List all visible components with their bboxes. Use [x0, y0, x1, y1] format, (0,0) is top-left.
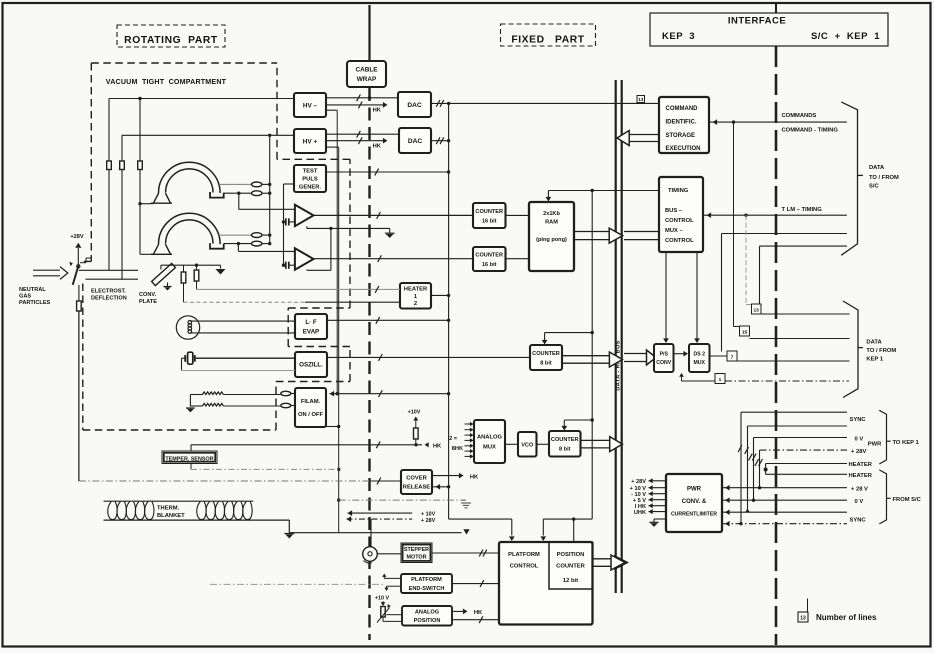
- svg-text:ANALOG: ANALOG: [415, 609, 439, 615]
- svg-text:POSITION: POSITION: [414, 618, 441, 624]
- svg-text:16 bit: 16 bit: [482, 218, 497, 224]
- svg-text:HK: HK: [373, 144, 382, 150]
- svg-text:DS 2: DS 2: [693, 352, 705, 358]
- svg-text:TO / FROM: TO / FROM: [866, 348, 896, 354]
- svg-text:P/S: P/S: [660, 352, 669, 358]
- svg-text:0 V: 0 V: [855, 499, 864, 505]
- svg-text:IDENTIFIC.: IDENTIFIC.: [666, 119, 697, 125]
- svg-text:ON / OFF: ON / OFF: [298, 412, 324, 418]
- svg-text:THERM.: THERM.: [157, 506, 180, 512]
- svg-text:COMMANDS: COMMANDS: [782, 113, 817, 119]
- svg-text:STEPPER: STEPPER: [404, 547, 429, 553]
- svg-text:1: 1: [719, 377, 722, 383]
- svg-text:16 bit: 16 bit: [482, 262, 497, 268]
- svg-text:COUNTER: COUNTER: [475, 252, 503, 258]
- svg-text:OSZILL.: OSZILL.: [299, 362, 323, 369]
- svg-text:COMMAND: COMMAND: [666, 106, 699, 112]
- svg-text:DATA - HK - BUS: DATA - HK - BUS: [616, 340, 622, 390]
- svg-text:TO / FROM: TO / FROM: [869, 175, 899, 181]
- svg-text:S/C + KEP 1: S/C + KEP 1: [811, 31, 880, 42]
- svg-text:MOTOR: MOTOR: [407, 554, 427, 560]
- svg-text:POSITION: POSITION: [557, 552, 585, 558]
- svg-text:DATA: DATA: [866, 340, 882, 346]
- svg-text:8 bit: 8 bit: [559, 447, 571, 453]
- svg-text:Number of lines: Number of lines: [816, 613, 877, 622]
- svg-text:13: 13: [638, 97, 644, 102]
- svg-text:COUNTER: COUNTER: [556, 564, 585, 570]
- svg-text:HK: HK: [433, 443, 442, 449]
- svg-text:HK: HK: [373, 108, 382, 114]
- svg-text:INTERFACE: INTERFACE: [728, 16, 786, 27]
- svg-text:WRAP: WRAP: [357, 76, 377, 83]
- svg-text:0 V: 0 V: [855, 436, 864, 442]
- svg-text:KEP 1: KEP 1: [866, 357, 883, 363]
- svg-text:SYNC: SYNC: [850, 517, 867, 523]
- svg-text:+28V: +28V: [70, 234, 83, 240]
- svg-text:ROTATING PART: ROTATING PART: [124, 35, 218, 46]
- svg-text:UHK: UHK: [634, 510, 646, 516]
- svg-text:DEFLECTION: DEFLECTION: [91, 296, 127, 302]
- svg-text:TEST: TEST: [303, 169, 318, 175]
- svg-text:13: 13: [754, 308, 760, 314]
- svg-text:GAS: GAS: [19, 294, 31, 300]
- svg-text:12 bit: 12 bit: [563, 578, 578, 584]
- svg-text:EXECUTION: EXECUTION: [666, 146, 701, 152]
- svg-text:CURRENTLIMITER: CURRENTLIMITER: [671, 512, 717, 518]
- svg-text:PWR: PWR: [687, 487, 702, 493]
- svg-text:CONTROL: CONTROL: [510, 564, 539, 570]
- svg-text:CONV. &: CONV. &: [682, 499, 707, 505]
- svg-text:ELECTROST.: ELECTROST.: [91, 289, 126, 295]
- svg-text:MUX: MUX: [483, 445, 496, 451]
- svg-text:HEATER: HEATER: [849, 473, 873, 479]
- svg-text:COVER: COVER: [406, 476, 427, 482]
- svg-text:PLATE: PLATE: [139, 299, 157, 305]
- svg-text:CABLE: CABLE: [355, 67, 378, 74]
- svg-text:8 bit: 8 bit: [540, 360, 552, 366]
- svg-text:CONV: CONV: [656, 360, 672, 366]
- svg-text:+ 28 V: + 28 V: [851, 486, 868, 492]
- svg-text:CONTROL: CONTROL: [665, 238, 694, 244]
- svg-text:PLATFORM: PLATFORM: [508, 552, 540, 558]
- svg-text:COUNTER: COUNTER: [475, 209, 503, 215]
- svg-text:KEP 3: KEP 3: [662, 31, 695, 42]
- svg-text:VACUUM TIGHT COMPARTMENT: VACUUM TIGHT COMPARTMENT: [106, 78, 227, 86]
- svg-text:8HK: 8HK: [452, 446, 463, 452]
- svg-text:PLATFORM: PLATFORM: [411, 577, 442, 583]
- svg-text:CONV.: CONV.: [139, 292, 157, 298]
- svg-text:PARTICLES: PARTICLES: [19, 300, 51, 306]
- svg-text:PWR: PWR: [868, 442, 882, 448]
- svg-text:13: 13: [800, 616, 806, 622]
- svg-text:HEATER: HEATER: [404, 287, 428, 293]
- svg-text:HV +: HV +: [303, 138, 318, 145]
- svg-text:+ 28V: + 28V: [851, 449, 866, 455]
- svg-text:BUS –: BUS –: [665, 208, 683, 214]
- svg-text:FIXED PART: FIXED PART: [511, 35, 584, 46]
- svg-text:ANALOG: ANALOG: [477, 435, 503, 441]
- svg-text:CONTROL: CONTROL: [665, 218, 694, 224]
- svg-text:+ 10V: + 10V: [421, 512, 436, 518]
- svg-text:2 =: 2 =: [449, 436, 458, 442]
- svg-text:NEUTRAL: NEUTRAL: [19, 287, 46, 293]
- svg-text:2: 2: [414, 301, 417, 307]
- svg-text:L· F: L· F: [305, 319, 317, 326]
- svg-text:RAM: RAM: [545, 220, 558, 226]
- svg-text:7: 7: [731, 355, 734, 361]
- svg-text:+10V: +10V: [408, 410, 421, 416]
- svg-text:S/C: S/C: [869, 184, 879, 190]
- svg-text:+10 V: +10 V: [375, 595, 390, 601]
- svg-text:COMMAND - TIMING: COMMAND - TIMING: [782, 128, 839, 134]
- svg-text:VCO: VCO: [521, 442, 534, 448]
- svg-text:SYNC: SYNC: [850, 417, 867, 423]
- svg-text:HV –: HV –: [303, 102, 318, 109]
- svg-text:MUX –: MUX –: [665, 228, 683, 234]
- svg-text:HEATER: HEATER: [849, 462, 873, 468]
- svg-text:DAC: DAC: [407, 102, 422, 109]
- svg-text:STORAGE: STORAGE: [666, 133, 696, 139]
- svg-text:PULS: PULS: [302, 177, 318, 183]
- svg-text:HK: HK: [470, 474, 479, 480]
- svg-text:DATA: DATA: [869, 165, 885, 171]
- svg-text:15: 15: [742, 330, 748, 336]
- svg-text:DAC: DAC: [408, 138, 423, 145]
- svg-text:HK: HK: [474, 610, 483, 616]
- svg-text:T LM – TIMING: T LM – TIMING: [782, 207, 823, 213]
- svg-text:COUNTER: COUNTER: [551, 437, 579, 443]
- svg-text:COUNTER: COUNTER: [532, 351, 560, 357]
- svg-text:MUX: MUX: [693, 360, 705, 366]
- svg-text:(ping pong): (ping pong): [536, 237, 567, 243]
- svg-text:TEMPER. SENSOR: TEMPER. SENSOR: [165, 456, 213, 462]
- svg-text:2x1Kb: 2x1Kb: [543, 211, 560, 217]
- svg-text:FILAM.: FILAM.: [301, 399, 321, 405]
- svg-text:GENER.: GENER.: [299, 185, 322, 191]
- svg-text:RELEASE: RELEASE: [403, 485, 431, 491]
- svg-text:BLANKET: BLANKET: [157, 513, 185, 519]
- svg-text:+ 28V: + 28V: [631, 479, 646, 485]
- svg-text:EVAP: EVAP: [303, 328, 319, 335]
- svg-text:TO KEP 1: TO KEP 1: [893, 440, 920, 446]
- svg-text:+ 28V: + 28V: [421, 518, 436, 524]
- svg-text:END-SWITCH: END-SWITCH: [409, 586, 445, 592]
- svg-text:TIMING: TIMING: [668, 188, 689, 194]
- svg-text:FROM S/C: FROM S/C: [893, 497, 922, 503]
